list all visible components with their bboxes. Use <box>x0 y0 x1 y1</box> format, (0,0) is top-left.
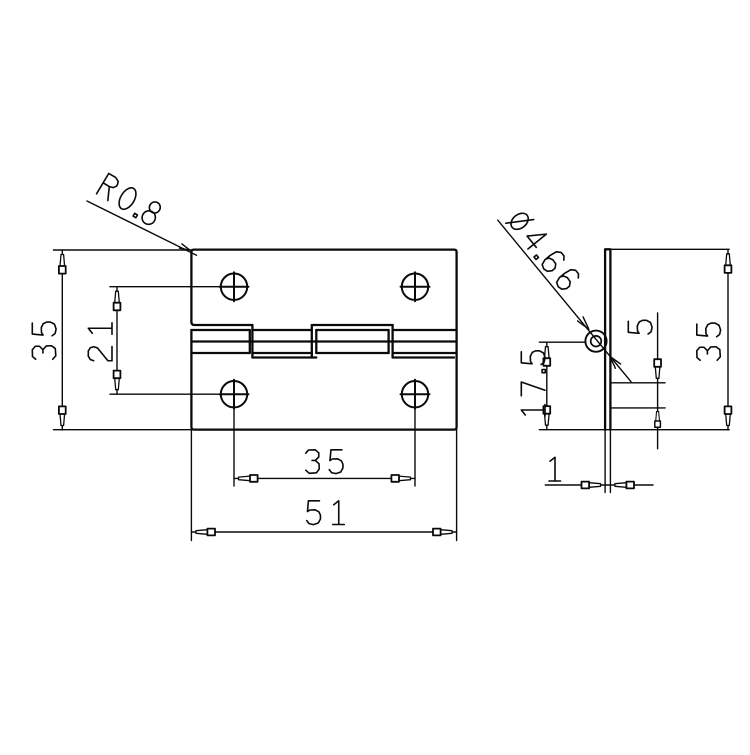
dim 35 holes: extension lines from hole centres <box>234 408 415 487</box>
leader D4.66 <box>498 220 631 382</box>
dim 35 side: dimension line <box>727 249 729 430</box>
knuckle cylinder bottom y=353 <box>191 352 456 354</box>
text 35 (left height) <box>32 322 56 359</box>
pin hole circle <box>591 336 602 347</box>
screw hole top-right <box>401 272 430 301</box>
hinge outline (front view, 51x35 plate) <box>191 250 456 430</box>
pin centre line y=341.5 <box>191 340 456 342</box>
screw hole bottom-left <box>220 380 249 409</box>
side plate (1mm thick) <box>605 249 610 429</box>
text D4.66 <box>506 208 581 293</box>
slot lines y=382.8 and y=407.9 <box>611 383 665 408</box>
knuckle bottom line y=357.5 <box>252 356 454 358</box>
arrows front view <box>59 255 66 274</box>
leader R0.8 arrowhead <box>180 244 190 250</box>
dim 51: extension lines <box>191 430 456 541</box>
dim 51: dimension line <box>191 531 456 533</box>
leader R0.8 <box>87 201 197 255</box>
text 1 <box>549 457 561 481</box>
knuckle top line y=325 <box>194 324 392 326</box>
screw hole top-left <box>220 272 249 301</box>
dim 5: dimension line <box>657 313 659 449</box>
side bottom edge / extension line <box>539 429 729 431</box>
leader D4.66 arrowhead upper <box>578 317 589 329</box>
text 51 <box>307 501 345 525</box>
dim 35 height: extension lines <box>54 250 192 430</box>
text R0.8 <box>96 173 163 226</box>
dim 1: dimension line <box>545 484 653 486</box>
text 5 (side) <box>628 320 652 334</box>
dim 17.5: dimension line <box>546 342 548 430</box>
side plate extension below (for dim 1) <box>605 430 610 493</box>
text 35 (side height) <box>697 323 721 360</box>
text 21 <box>88 323 112 361</box>
text 35 (hole spacing) <box>306 450 343 474</box>
text 17.5 <box>521 351 545 416</box>
side top extension line <box>610 248 729 250</box>
upper leaf bottom-left corner into knuckle <box>191 322 194 325</box>
dim 21: dimension line <box>116 287 118 395</box>
knuckle joints verticals <box>250 325 393 358</box>
dim 35 holes: dimension line <box>234 477 415 479</box>
screw hole bottom-right <box>401 380 430 409</box>
knuckle barrel circle <box>585 331 606 352</box>
dim 21 extension lines to hole centres <box>110 287 221 395</box>
leader D4.66 arrowhead lower <box>610 357 621 369</box>
dim 35 height: dimension line <box>61 250 63 430</box>
arrows side view <box>725 254 732 273</box>
knuckle cylinder top y=330 <box>191 329 456 331</box>
dim 17.5: extension line at hole centre <box>539 341 585 343</box>
